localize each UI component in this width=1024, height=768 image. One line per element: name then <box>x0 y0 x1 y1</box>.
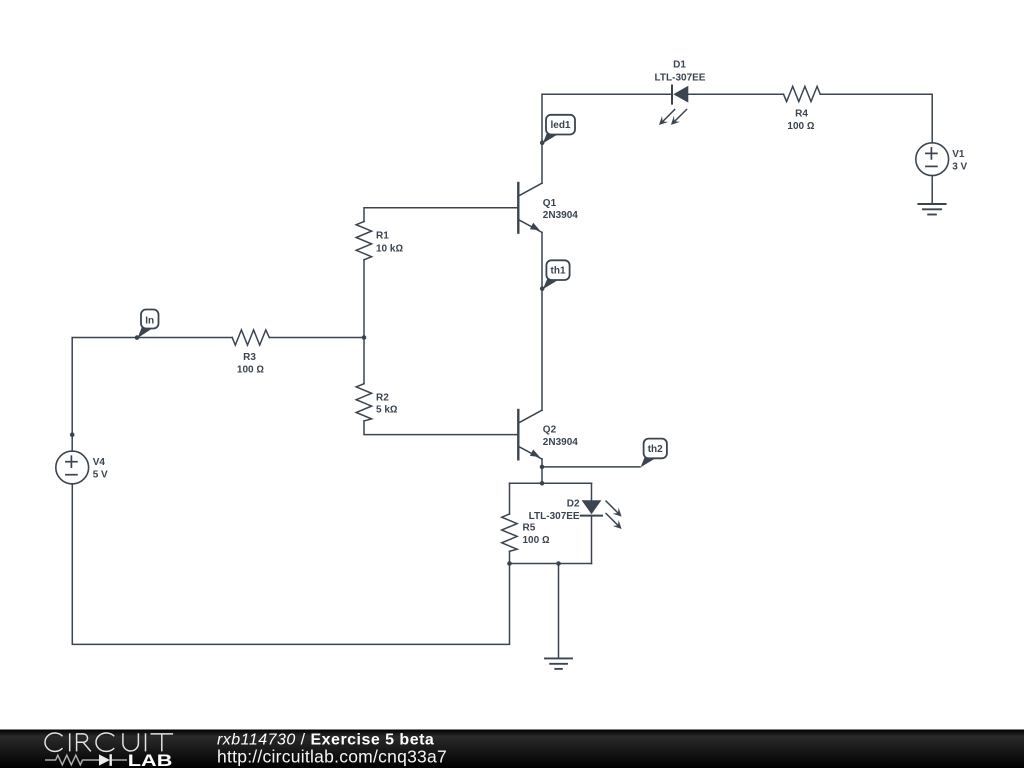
wire R3 to junction <box>269 337 364 339</box>
voltage source V4 <box>56 451 89 484</box>
node V4 top <box>70 432 75 437</box>
logo CIRCUIT (hand-drawn thin letters) <box>45 733 173 751</box>
transistor Q2 <box>518 410 542 459</box>
wire box left upper <box>509 483 511 514</box>
svg-text:D1: D1 <box>673 60 686 71</box>
wire ground branch <box>558 564 560 659</box>
wire top net from Q1 collector to D1 <box>542 94 671 183</box>
svg-text:R5: R5 <box>523 523 536 534</box>
wire R1 bottom to junction <box>363 260 365 338</box>
resistor R3 <box>232 330 269 345</box>
node R1/R2/R3 junction <box>362 335 367 340</box>
svg-text:V4: V4 <box>93 457 106 468</box>
svg-text:2N3904: 2N3904 <box>543 437 578 448</box>
svg-text:LTL-307EE: LTL-307EE <box>529 511 580 522</box>
svg-text:th1: th1 <box>551 266 566 277</box>
svg-text:th2: th2 <box>648 444 663 455</box>
node led1 dot <box>540 140 545 145</box>
node box bottom left <box>507 561 512 566</box>
wire V1 to ground <box>931 176 933 204</box>
wire emitter node down to D2/R5 box <box>541 467 543 483</box>
node Q2 emitter <box>540 465 545 470</box>
svg-text:In: In <box>145 315 154 326</box>
wire Q1 base row (R1 top to Q1) <box>364 208 517 222</box>
svg-text:100 Ω: 100 Ω <box>237 364 264 375</box>
node box top <box>540 481 545 486</box>
node In dot <box>135 335 140 340</box>
voltage source V1 <box>916 143 949 176</box>
wire Q1 emitter to Q2 collector <box>541 232 543 410</box>
wire box top <box>510 482 592 484</box>
svg-text:R1: R1 <box>376 230 389 241</box>
wire R4 to V1 <box>820 94 932 143</box>
node dots <box>70 140 561 565</box>
resistor R4 <box>784 86 821 101</box>
wire box right lower <box>591 517 593 564</box>
svg-text:R4: R4 <box>795 108 808 119</box>
svg-text:LTL-307EE: LTL-307EE <box>655 73 706 84</box>
svg-text:5 V: 5 V <box>93 470 108 481</box>
svg-text:Q2: Q2 <box>543 425 557 436</box>
svg-text:V1: V1 <box>952 149 965 160</box>
resistor R1 <box>356 222 371 260</box>
wire box left lower <box>509 551 511 563</box>
svg-text:LAB: LAB <box>128 751 173 768</box>
LED D1 <box>659 86 688 126</box>
svg-text:5 kΩ: 5 kΩ <box>376 404 398 415</box>
flag label In <box>137 310 158 339</box>
svg-text:100 Ω: 100 Ω <box>787 121 814 132</box>
LED D2 <box>581 500 622 529</box>
transistor Q1 <box>518 183 542 233</box>
wire box bottom <box>510 563 592 565</box>
wire box right upper <box>591 483 593 500</box>
flag label th2 <box>641 439 667 468</box>
footer bar <box>0 730 1024 768</box>
wire D1 to R4 <box>689 93 784 95</box>
wire bottom return path <box>72 484 509 645</box>
svg-text:10 kΩ: 10 kΩ <box>376 243 403 254</box>
node th1 dot <box>540 286 545 291</box>
logo resistor-diode glyph <box>45 754 127 766</box>
svg-text:Q1: Q1 <box>543 198 557 209</box>
resistor R5 <box>502 514 517 551</box>
svg-text:R3: R3 <box>243 352 256 363</box>
wire V4 top to In row <box>72 338 232 452</box>
flag label led1 <box>543 115 575 144</box>
wire junction to R2 <box>363 338 365 384</box>
svg-text:100 Ω: 100 Ω <box>523 535 550 546</box>
ground (D2) <box>545 658 572 669</box>
svg-text:D2: D2 <box>567 499 580 510</box>
svg-text:http://circuitlab.com/cnq33a7: http://circuitlab.com/cnq33a7 <box>217 746 447 766</box>
wire Q2 emitter node <box>541 459 543 467</box>
svg-text:3 V: 3 V <box>952 162 967 173</box>
node ground branch <box>556 561 561 566</box>
resistor R2 <box>356 384 371 421</box>
flag label th1 <box>543 260 570 289</box>
wire emitter node to th2 <box>542 466 640 468</box>
ground (V1) <box>918 204 945 215</box>
svg-text:R2: R2 <box>376 392 389 403</box>
svg-text:2N3904: 2N3904 <box>543 210 578 221</box>
svg-text:led1: led1 <box>550 120 570 131</box>
wire R2 bottom to Q2 base <box>364 421 517 435</box>
